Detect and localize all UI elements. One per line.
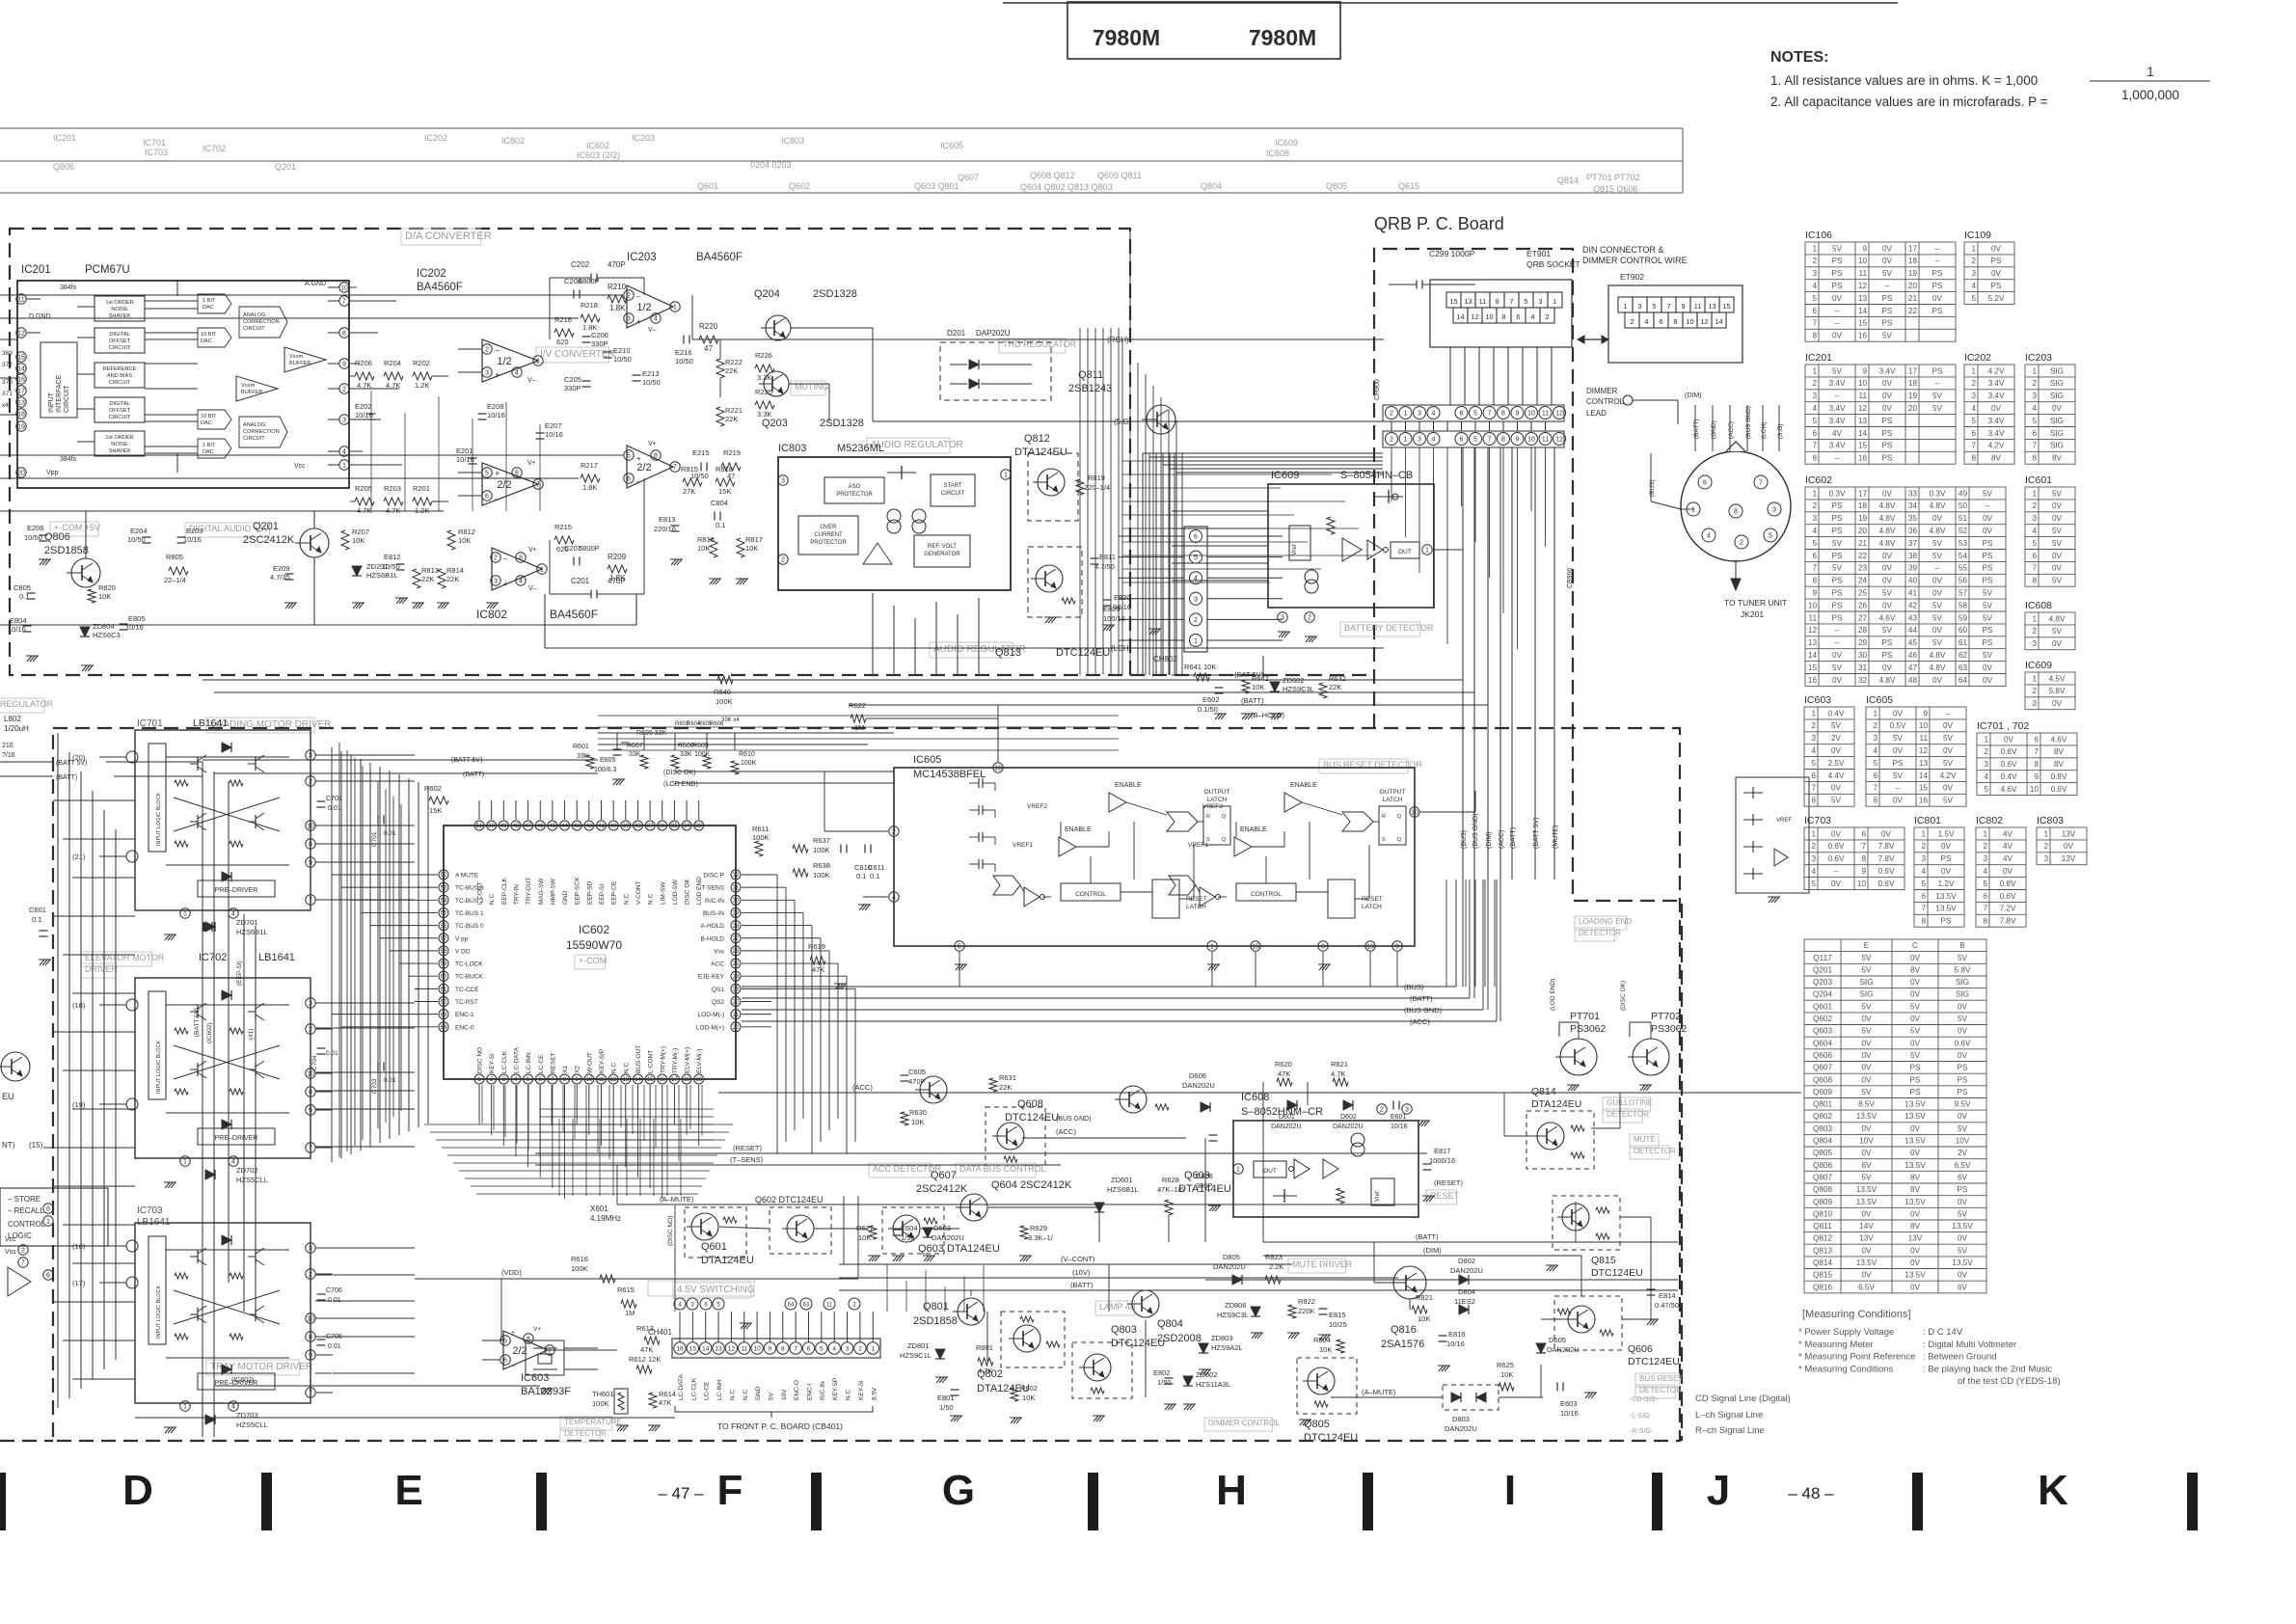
svg-text:49: 49 — [500, 824, 507, 829]
svg-text:BUS RESET: BUS RESET — [1639, 1374, 1683, 1383]
svg-text:0V: 0V — [1958, 1234, 1968, 1243]
svg-text:DAC: DAC — [201, 420, 212, 426]
capacitor E603 — [1556, 1383, 1558, 1392]
svg-text:+: + — [495, 469, 500, 478]
svg-text:51: 51 — [1958, 514, 1968, 523]
svg-text:13.5V: 13.5V — [1952, 1222, 1973, 1231]
svg-text:R614: R614 — [659, 1390, 676, 1398]
svg-text:0V: 0V — [1958, 1027, 1968, 1036]
svg-text:27: 27 — [733, 936, 740, 942]
svg-text:E814: E814 — [1659, 1291, 1676, 1300]
svg-text:13.5V: 13.5V — [1856, 1198, 1877, 1206]
svg-text:10/16: 10/16 — [487, 411, 505, 420]
resistor R822 — [1288, 1305, 1296, 1318]
wire verticals left of QRB — [1121, 339, 1123, 675]
svg-text:IC605: IC605 — [1866, 694, 1893, 706]
svg-text:1.8K: 1.8K — [582, 483, 597, 492]
svg-text:5V: 5V — [1983, 601, 1993, 609]
svg-text:10: 10 — [1919, 721, 1929, 730]
svg-text:2: 2 — [781, 557, 785, 564]
svg-text:R210: R210 — [608, 283, 627, 291]
svg-text:5: 5 — [1473, 437, 1477, 444]
IC201 internal block DIGITAL OFFSET — [95, 397, 145, 422]
wire BAT5V — [665, 679, 1463, 681]
stamp label DETECTOR — [1603, 1109, 1642, 1123]
svg-text:R622: R622 — [849, 701, 866, 710]
resistor R815 — [683, 478, 702, 486]
svg-text:5V: 5V — [1831, 797, 1842, 805]
IC IC602 outline — [444, 826, 736, 1079]
capacitor E604 — [893, 1229, 902, 1231]
svg-text:–: – — [1935, 564, 1940, 573]
svg-text:PS: PS — [1832, 552, 1843, 560]
svg-text:D.GND: D.GND — [29, 313, 51, 320]
svg-text:3: 3 — [1873, 734, 1877, 743]
svg-text:0V: 0V — [1861, 1051, 1872, 1060]
svg-text:8: 8 — [1861, 854, 1866, 863]
svg-text:DIMMER CONTROL: DIMMER CONTROL — [1208, 1419, 1280, 1427]
svg-text:22K: 22K — [725, 366, 738, 375]
svg-text:IC701: IC701 — [143, 138, 166, 148]
svg-text:5V: 5V — [1932, 404, 1943, 413]
svg-text:44: 44 — [561, 824, 568, 829]
svg-text:0V: 0V — [1991, 269, 2002, 278]
svg-text:Vpp: Vpp — [46, 470, 59, 476]
svg-text:BUFFER: BUFFER — [241, 390, 262, 395]
svg-text:GND: GND — [755, 1386, 762, 1400]
svg-text:5V: 5V — [2052, 489, 2063, 498]
svg-text:5V: 5V — [1932, 539, 1943, 548]
svg-text:C605: C605 — [908, 1068, 926, 1076]
wire trunk verticals LB1641 to IC602 — [331, 747, 333, 1162]
svg-text:0V: 0V — [1861, 1075, 1872, 1084]
wires battery detector — [1172, 674, 1194, 676]
dashed border segment — [1130, 674, 1369, 676]
wire V-CONT drops — [843, 1196, 845, 1264]
svg-text:29: 29 — [1858, 638, 1868, 647]
svg-text:R205: R205 — [355, 484, 372, 493]
svg-text:0V: 0V — [1881, 829, 1892, 838]
wire IC605 pin16 up — [997, 705, 999, 733]
svg-text:DETECTOR: DETECTOR — [1579, 929, 1621, 937]
svg-text:2SC2412K: 2SC2412K — [243, 534, 295, 546]
svg-text:34: 34 — [684, 824, 690, 829]
svg-text:0.1: 0.1 — [32, 915, 41, 924]
svg-text:R823: R823 — [1265, 1253, 1283, 1261]
IC IC803 outline — [778, 457, 1011, 590]
svg-text:13V: 13V — [2062, 829, 2076, 838]
svg-text:2: 2 — [342, 387, 346, 393]
wire stub left edge — [0, 338, 17, 340]
op-amp IC202 2/2 — [482, 463, 538, 505]
svg-text:Q815: Q815 — [1813, 1271, 1832, 1280]
svg-text:W-OUT: W-OUT — [586, 1052, 593, 1073]
transistor Q805 block — [1297, 1358, 1357, 1414]
DIN pin 3 — [1768, 502, 1781, 516]
svg-text:24: 24 — [1858, 577, 1868, 585]
svg-text:LOADING END: LOADING END — [1579, 917, 1632, 926]
svg-text:SIG: SIG — [1859, 990, 1873, 999]
svg-text:MUTE DRIVER: MUTE DRIVER — [1292, 1259, 1353, 1269]
svg-text:R630: R630 — [909, 1108, 927, 1117]
svg-text:Vref: Vref — [1375, 1191, 1381, 1202]
stamp label +-COM +5V — [50, 522, 98, 536]
svg-text:0V: 0V — [1882, 564, 1893, 573]
svg-text:8: 8 — [1873, 797, 1877, 805]
svg-text:2: 2 — [309, 779, 312, 786]
svg-text:R: R — [1206, 814, 1210, 820]
svg-text:8: 8 — [1321, 944, 1325, 951]
svg-text:TO FRONT P. C. BOARD (CB401): TO FRONT P. C. BOARD (CB401) — [717, 1421, 843, 1431]
svg-text:3: 3 — [2032, 392, 2037, 400]
svg-text:9: 9 — [1495, 297, 1499, 306]
transistor Q813 block — [1028, 547, 1082, 617]
svg-text:0V: 0V — [1831, 746, 1842, 755]
svg-text:(18): (18) — [72, 1001, 86, 1010]
svg-text:D804: D804 — [1458, 1287, 1475, 1296]
capacitor E817 — [1423, 1163, 1432, 1165]
svg-text:Vcom: Vcom — [241, 383, 256, 389]
svg-text:0V: 0V — [1943, 746, 1954, 755]
svg-text:10: 10 — [586, 1077, 593, 1083]
svg-text:Q601: Q601 — [1813, 1002, 1832, 1011]
svg-text:(GND): (GND) — [1711, 420, 1717, 439]
svg-text:DETECTOR: DETECTOR — [1607, 1110, 1649, 1119]
svg-text:(BUS): (BUS) — [1461, 830, 1468, 849]
resistor R627 — [869, 1226, 877, 1239]
svg-text:PS: PS — [1882, 319, 1893, 328]
svg-text:R816: R816 — [697, 535, 715, 544]
svg-text:(VDD): (VDD) — [501, 1268, 522, 1277]
svg-text:N.C: N.C — [729, 1390, 736, 1401]
svg-text:SIG: SIG — [1956, 978, 1969, 987]
svg-text:4V: 4V — [1832, 429, 1843, 438]
capacitor E801 — [951, 1389, 959, 1391]
IC702 H-bridge transistors — [190, 1011, 198, 1013]
svg-text:Q804: Q804 — [1813, 1137, 1832, 1146]
svg-text:Q806: Q806 — [44, 531, 70, 543]
wire VDD — [415, 1278, 858, 1280]
svg-text:(RCH): (RCH) — [1107, 336, 1129, 344]
svg-text:0.1: 0.1 — [870, 872, 879, 880]
svg-text:6V: 6V — [1958, 1174, 1968, 1182]
svg-text:27: 27 — [1858, 613, 1868, 622]
svg-text:369: 369 — [2, 350, 13, 357]
svg-text:Q816: Q816 — [1391, 1324, 1417, 1336]
DIN wire labels — [1694, 405, 1696, 451]
svg-text:4V: 4V — [2003, 829, 2013, 838]
svg-text:0204 0203: 0204 0203 — [750, 160, 792, 170]
svg-text:Q606: Q606 — [1628, 1343, 1653, 1355]
wire elbows bus to QRB verticals — [1455, 880, 1457, 987]
resistor R204 — [384, 372, 403, 380]
resistor R220 — [699, 336, 718, 343]
resistor R805 — [169, 567, 188, 575]
svg-text:20: 20 — [17, 471, 25, 477]
svg-text:CH401: CH401 — [648, 1328, 672, 1337]
svg-text:Q201: Q201 — [1813, 965, 1832, 974]
svg-text:16: 16 — [1808, 676, 1818, 685]
svg-text:8V: 8V — [1910, 1222, 1921, 1231]
wire 10V — [839, 1277, 1398, 1279]
svg-text:0V: 0V — [1941, 867, 1952, 876]
svg-text:C601: C601 — [29, 906, 46, 914]
svg-text:13: 13 — [17, 400, 25, 407]
svg-text:GUILLOTINE: GUILLOTINE — [1607, 1098, 1653, 1107]
svg-text:Q608: Q608 — [1813, 1075, 1832, 1084]
svg-text:Q816: Q816 — [1813, 1283, 1832, 1291]
svg-text:3: 3 — [1281, 615, 1284, 622]
svg-text:5V: 5V — [1861, 1002, 1872, 1011]
svg-text:4: 4 — [1971, 282, 1976, 290]
IC IC201 outline — [17, 281, 349, 488]
svg-text:PS: PS — [1941, 917, 1952, 926]
svg-text:PS: PS — [1941, 854, 1952, 863]
svg-text:PS: PS — [1832, 613, 1843, 622]
svg-text:VREF1: VREF1 — [1188, 842, 1208, 849]
svg-text:IC602: IC602 — [1805, 474, 1832, 486]
svg-text:Vref: Vref — [1291, 544, 1298, 555]
svg-text:LEAD: LEAD — [1586, 409, 1607, 418]
svg-text:R822: R822 — [1298, 1297, 1315, 1306]
svg-text:HZS6B1L: HZS6B1L — [366, 571, 398, 580]
svg-text:IC203: IC203 — [632, 133, 655, 143]
svg-text:NT): NT) — [2, 1141, 15, 1150]
svg-text:10: 10 — [307, 1071, 314, 1078]
svg-text:10/16: 10/16 — [355, 411, 373, 420]
svg-text:55: 55 — [441, 911, 447, 917]
svg-text:+: + — [636, 454, 641, 463]
stamp label ACC DETECTOR — [869, 1163, 931, 1177]
svg-text:ACC: ACC — [711, 961, 724, 968]
svg-text:4: 4 — [1811, 746, 1816, 755]
svg-text:0V: 0V — [1831, 829, 1842, 838]
svg-text:REFERENCE: REFERENCE — [103, 366, 137, 372]
resistor R812 — [447, 530, 455, 550]
svg-text:61: 61 — [441, 988, 447, 993]
wire left column verticals — [57, 733, 59, 1408]
stamp label DIMMER CONTROL — [1204, 1418, 1272, 1431]
svg-text:10V: 10V — [1859, 1137, 1874, 1146]
svg-text:Q606: Q606 — [1813, 1051, 1832, 1060]
svg-text:IC803: IC803 — [778, 443, 806, 454]
svg-text:10/16: 10/16 — [545, 430, 563, 439]
svg-text:8: 8 — [1812, 454, 1817, 463]
svg-text:– RECALL: – RECALL — [8, 1206, 44, 1215]
svg-text:5V: 5V — [1983, 588, 1993, 597]
svg-text:EEP-SCK: EEP-SCK — [575, 877, 581, 905]
wire D802 row — [1427, 1279, 1448, 1281]
svg-text:6: 6 — [1971, 429, 1976, 438]
svg-text:1/50: 1/50 — [939, 1403, 954, 1412]
svg-text:IC703: IC703 — [1804, 815, 1831, 826]
svg-text:470P: 470P — [608, 260, 626, 269]
svg-text:0V: 0V — [2064, 842, 2074, 851]
IC703 zener ZD703 — [205, 1415, 215, 1424]
IC608 out box — [1254, 1161, 1286, 1177]
resistor R205 — [355, 498, 374, 505]
svg-text:8V: 8V — [1991, 454, 2002, 463]
svg-text:3.4V: 3.4V — [1829, 379, 1846, 388]
svg-text:-R-SIG-: -R-SIG- — [1630, 1428, 1654, 1435]
svg-text:0.6V: 0.6V — [1828, 842, 1845, 851]
svg-text:10K: 10K — [745, 544, 758, 553]
svg-text:64: 64 — [788, 1303, 795, 1309]
svg-text:ZD601: ZD601 — [1111, 1176, 1133, 1184]
svg-text:1/50: 1/50 — [901, 1233, 915, 1242]
svg-text:10/16: 10/16 — [1391, 1123, 1408, 1130]
capacitor C701 — [377, 816, 379, 825]
IC605 bottom pins — [955, 941, 964, 951]
wire bottom connector drops — [886, 1264, 888, 1312]
svg-text:1: 1 — [1971, 366, 1976, 375]
svg-text:11: 11 — [598, 1077, 605, 1083]
wire bundle QRB to left — [1142, 453, 1144, 675]
capacitor E805 — [120, 623, 128, 625]
svg-text:D606: D606 — [1189, 1071, 1206, 1080]
capacitor C205 — [582, 380, 591, 382]
svg-text:ENABLE: ENABLE — [1115, 782, 1142, 789]
svg-text:4: 4 — [1707, 533, 1711, 540]
svg-text:1: 1 — [1691, 507, 1695, 514]
svg-text:LC-CLK: LC-CLK — [690, 1377, 697, 1400]
capacitor C702 — [317, 800, 326, 802]
svg-text:TRY-OUT: TRY-OUT — [526, 878, 532, 905]
svg-text:3: 3 — [1772, 507, 1776, 514]
svg-text:Vss: Vss — [714, 948, 725, 955]
svg-text:0V: 0V — [1832, 294, 1843, 303]
dashed border bottom left segment — [0, 1440, 53, 1442]
capacitor C610 — [840, 845, 842, 853]
svg-text:22: 22 — [1858, 552, 1868, 560]
svg-text:Q615: Q615 — [1398, 181, 1419, 191]
svg-text:7: 7 — [309, 1146, 312, 1152]
svg-text:0V: 0V — [1983, 676, 1993, 685]
svg-text:Q805: Q805 — [1304, 1419, 1330, 1430]
wire A-MUTE lower — [617, 1204, 1418, 1205]
svg-text:36: 36 — [659, 824, 665, 829]
auxiliary switch block — [1736, 777, 1809, 893]
svg-text:3: 3 — [1418, 411, 1421, 418]
svg-text:ENC-1: ENC-1 — [455, 1012, 474, 1018]
svg-text:PS: PS — [1983, 626, 1993, 635]
svg-text:E209: E209 — [273, 564, 290, 573]
svg-text:10K: 10K — [352, 536, 365, 545]
IC605 pin 16 — [993, 763, 1003, 772]
svg-text:22K: 22K — [999, 1083, 1012, 1092]
svg-text:6: 6 — [2034, 735, 2039, 744]
svg-text:0V: 0V — [1983, 527, 1993, 535]
diode D804 — [1459, 1305, 1469, 1314]
capacitor E820 — [1103, 599, 1112, 601]
svg-text:38: 38 — [635, 824, 641, 829]
svg-text:5: 5 — [1812, 294, 1817, 303]
svg-text:0V: 0V — [1882, 392, 1893, 400]
svg-text:Q807: Q807 — [1813, 1174, 1832, 1182]
wire lower right runs — [986, 1312, 988, 1362]
svg-text:R: R — [1382, 814, 1386, 820]
svg-text:OFFSET: OFFSET — [109, 408, 131, 414]
svg-text:RESET: RESET — [1186, 896, 1207, 903]
svg-text:7980M: 7980M — [1093, 25, 1160, 50]
resistor R638 — [793, 869, 808, 877]
svg-text:19: 19 — [1908, 269, 1918, 278]
svg-text:11: 11 — [1920, 734, 1929, 743]
svg-text:1/20uH: 1/20uH — [4, 724, 29, 733]
resistor R601 — [586, 755, 594, 769]
svg-text:3: 3 — [1984, 760, 1988, 769]
svg-text:6.5V: 6.5V — [1858, 1283, 1875, 1291]
svg-text:TC-RST: TC-RST — [455, 999, 478, 1006]
svg-text:1/2: 1/2 — [636, 302, 651, 313]
svg-text:10: 10 — [1858, 257, 1868, 265]
svg-text:(IC602): (IC602) — [206, 1022, 213, 1043]
svg-text:CH900: CH900 — [1374, 379, 1381, 400]
svg-text:3.4V: 3.4V — [1879, 366, 1896, 375]
transistor Q603 block — [882, 1207, 944, 1254]
svg-text:0V: 0V — [1861, 1246, 1872, 1255]
svg-text:–: – — [495, 494, 500, 503]
svg-text:V pp: V pp — [455, 935, 469, 942]
svg-text:2: 2 — [1308, 615, 1311, 622]
svg-text:5V: 5V — [1932, 601, 1943, 609]
svg-text:10K: 10K — [1319, 1345, 1332, 1354]
svg-text:5V: 5V — [1943, 759, 1954, 768]
svg-text:DAN202U: DAN202U — [1213, 1262, 1246, 1271]
svg-text:* Measuring Point Reference: * Measuring Point Reference — [1798, 1352, 1915, 1363]
svg-text:100K: 100K — [813, 871, 830, 880]
svg-text:(MUTE): (MUTE) — [1553, 826, 1559, 850]
stamp label BATTERY DETECTOR — [1340, 622, 1420, 636]
svg-text:Q609: Q609 — [1813, 1088, 1832, 1096]
zener ZD804 — [80, 627, 90, 636]
svg-text:1: 1 — [1553, 297, 1556, 306]
crystal X601 — [526, 1340, 564, 1375]
svg-text:17: 17 — [671, 1077, 678, 1083]
svg-text:–: – — [1835, 307, 1840, 315]
index strip rules — [0, 127, 1683, 129]
svg-text:42: 42 — [586, 824, 593, 829]
svg-text:9: 9 — [1861, 867, 1866, 876]
resistor R813 — [413, 569, 420, 588]
svg-text:E802: E802 — [1153, 1368, 1171, 1377]
svg-text:R203: R203 — [384, 484, 401, 493]
svg-text:Q803: Q803 — [1111, 1324, 1137, 1336]
transistor Q815 block — [1553, 1196, 1620, 1250]
capacitor C206 — [582, 336, 591, 338]
battery detector resistors — [1194, 673, 1209, 681]
svg-text:(LCH): (LCH) — [1111, 644, 1132, 653]
svg-text:–: – — [1835, 454, 1840, 463]
svg-text:2: 2 — [1921, 842, 1926, 851]
svg-text:* Measuring Conditions: * Measuring Conditions — [1798, 1364, 1893, 1374]
IC701 H-bridge transistors — [190, 763, 198, 765]
svg-text:3.4V: 3.4V — [1829, 404, 1846, 413]
svg-text:5: 5 — [1873, 759, 1877, 768]
svg-text:HZS11A3L: HZS11A3L — [1196, 1380, 1230, 1389]
svg-text:R615: R615 — [617, 1286, 635, 1294]
svg-text:(DISC OK): (DISC OK) — [1620, 981, 1627, 1011]
svg-text:5V: 5V — [1861, 1174, 1872, 1182]
svg-text:2SC2412K: 2SC2412K — [916, 1183, 968, 1195]
svg-text:R207: R207 — [352, 528, 369, 536]
svg-text:6: 6 — [2032, 552, 2037, 560]
svg-text:3: 3 — [2032, 699, 2037, 708]
svg-text:2: 2 — [1630, 317, 1634, 326]
svg-text:1: 1 — [1812, 244, 1817, 253]
svg-text:IC605: IC605 — [913, 754, 941, 766]
svg-text:26: 26 — [733, 949, 740, 955]
